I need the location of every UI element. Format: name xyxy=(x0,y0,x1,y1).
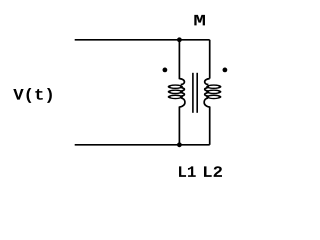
node junction bottom xyxy=(177,142,182,147)
polarity dot right xyxy=(223,68,228,73)
polarity dot left xyxy=(163,68,168,73)
wire right vertical top (L2 top lead) xyxy=(209,40,211,79)
wire L1 top lead xyxy=(178,40,180,79)
inductor L1 xyxy=(168,79,185,107)
wire L1 bottom lead xyxy=(178,107,180,145)
node junction top xyxy=(177,37,182,42)
core line left xyxy=(192,73,194,113)
wire bottom horizontal xyxy=(75,144,210,146)
wire top horizontal xyxy=(75,39,210,41)
wire right vertical bottom (L2 bottom lead) xyxy=(209,107,211,145)
inductor L2 xyxy=(204,79,221,107)
label M xyxy=(194,15,205,26)
label V(t) xyxy=(13,88,52,103)
core line right xyxy=(196,73,198,113)
label L2 xyxy=(204,166,222,177)
label L1 xyxy=(179,166,196,177)
